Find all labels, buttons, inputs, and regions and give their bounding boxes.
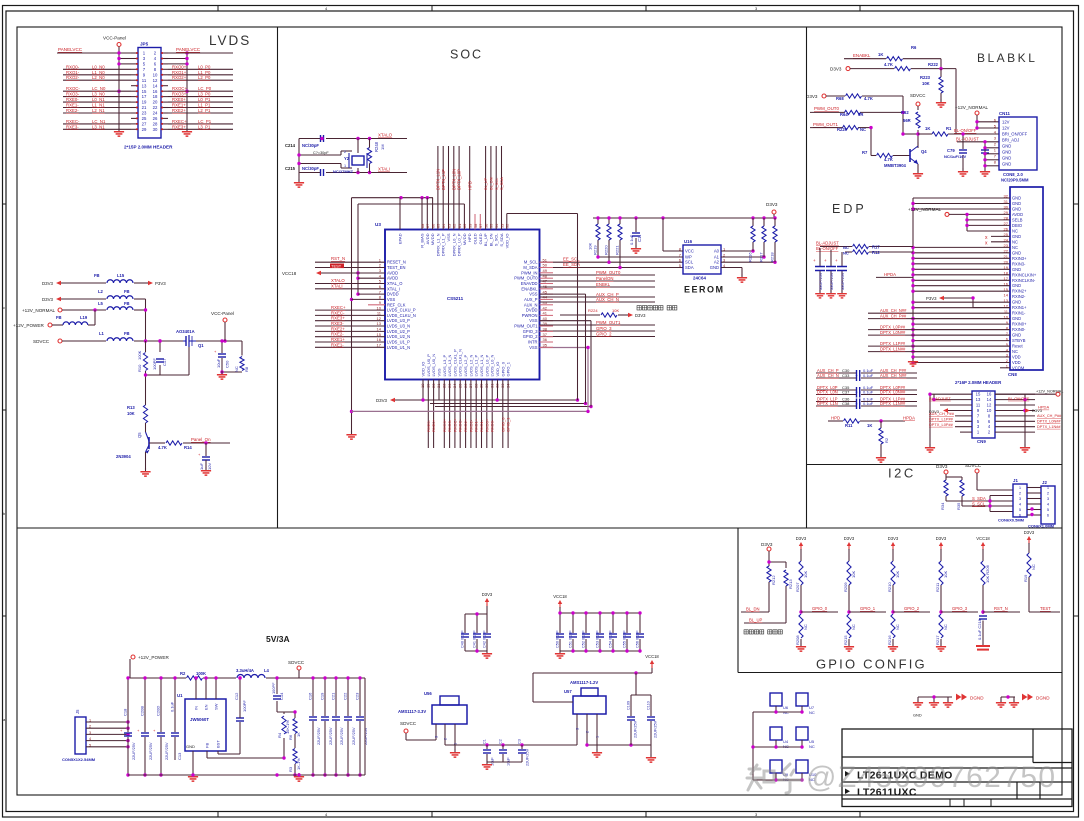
capacitor C51	[569, 630, 578, 648]
svg-text:AVDD: AVDD	[387, 270, 398, 275]
svg-text:14: 14	[153, 83, 158, 88]
svg-text:VSS: VSS	[529, 318, 537, 323]
svg-text:PANELVCC: PANELVCC	[176, 47, 201, 52]
cluster2 rails	[560, 613, 640, 651]
svg-text:100PF: 100PF	[152, 358, 157, 370]
resistor R13b	[879, 428, 889, 444]
wire u1 bst	[218, 722, 240, 754]
ground SOC left gnd	[346, 431, 356, 440]
svg-text:10K-1%: 10K-1%	[285, 720, 290, 734]
inductor L2 FB	[98, 289, 133, 299]
svg-text:R6: R6	[911, 45, 917, 50]
svg-text:LVDS_L3_N: LVDS_L3_N	[447, 354, 452, 376]
svg-text:C3: C3	[518, 739, 522, 744]
junction dgnd1	[932, 695, 935, 698]
svg-text:NC: NC	[895, 624, 900, 630]
svg-text:DPTX_L0P: DPTX_L0P	[457, 169, 462, 190]
svg-text:FB: FB	[124, 301, 130, 306]
junction r10	[144, 339, 162, 376]
svg-text:GPIO_0: GPIO_0	[500, 361, 505, 376]
svg-text:63: 63	[446, 224, 451, 228]
junction xtal	[297, 137, 371, 174]
resistor R229	[837, 126, 866, 133]
ground rst special	[982, 643, 984, 645]
cl2 dots	[558, 611, 641, 652]
wire JP5 right stubs	[168, 59, 187, 64]
capacitor C21	[331, 692, 345, 745]
svg-text:LVDS_CLKL_P: LVDS_CLKL_P	[452, 349, 457, 377]
wire q4 col	[917, 142, 919, 146]
svg-text:VCC18: VCC18	[553, 594, 567, 599]
wire sdvcc i2c wire	[977, 473, 1013, 490]
ground Q5 gnd	[140, 468, 150, 477]
svg-text:1: 1	[596, 736, 600, 738]
CN11 pin names	[994, 118, 1028, 167]
junction g1	[767, 560, 770, 563]
svg-text:RXO0+: RXO0+	[484, 418, 489, 432]
resistor R216	[748, 226, 756, 262]
svg-text:FB: FB	[124, 331, 130, 336]
wire dgnd wire 1	[918, 697, 952, 702]
svg-text:R216: R216	[887, 635, 892, 645]
wire LVDS row RXO3+	[168, 96, 233, 98]
svg-text:NC: NC	[843, 251, 849, 256]
svg-text:40: 40	[543, 316, 548, 321]
svg-text:D3V3: D3V3	[936, 536, 947, 541]
wire bl row4	[810, 111, 903, 113]
svg-text:R229: R229	[837, 127, 848, 132]
J5 wires	[86, 719, 128, 748]
DGND arrow 1	[956, 694, 967, 701]
wire JP5 left stubs	[119, 59, 131, 64]
svg-text:10V: 10V	[207, 463, 212, 470]
svg-text:NC/30pF: NC/30pF	[302, 166, 319, 171]
wire enabkl wire	[844, 59, 941, 69]
ground EDP bus gnd	[908, 358, 918, 367]
svg-text:RXO2-: RXO2-	[66, 75, 80, 80]
capacitor C38	[857, 403, 860, 409]
svg-text:TEST: TEST	[1040, 606, 1051, 611]
wire r10 leads	[146, 341, 161, 405]
svg-text:MVDD: MVDD	[430, 233, 435, 245]
resistor R208	[795, 614, 808, 645]
svg-text:R211: R211	[935, 582, 940, 592]
svg-text:BL-ON/OFF: BL-ON/OFF	[1008, 396, 1030, 401]
capacitor C50	[556, 630, 565, 648]
svg-text:22UF/25V: 22UF/25V	[526, 748, 530, 766]
svg-text:Panel_On: Panel_On	[191, 437, 211, 442]
svg-text:L19: L19	[80, 315, 88, 320]
svg-text:L2_N0: L2_N0	[92, 75, 105, 80]
svg-text:L15: L15	[117, 273, 125, 278]
svg-text:R62: R62	[901, 110, 909, 115]
svg-text:VCC18: VCC18	[282, 271, 297, 276]
svg-text:100K: 100K	[137, 350, 142, 360]
svg-text:JP5: JP5	[140, 42, 149, 47]
svg-text:VSS: VSS	[437, 368, 442, 376]
svg-text:22UF/25V: 22UF/25V	[164, 742, 169, 760]
svg-text:C42 0.1uF: C42 0.1uF	[483, 630, 487, 648]
svg-text:R8: R8	[244, 366, 249, 372]
svg-text:EEROM: EEROM	[684, 285, 725, 295]
wire LVDS row RXE1-	[63, 107, 131, 109]
svg-text:AVDD: AVDD	[387, 276, 398, 281]
svg-text:RXOC-: RXOC-	[458, 418, 463, 432]
svg-text:1: 1	[344, 164, 346, 168]
wire C22 v	[347, 678, 349, 775]
junction c12	[238, 676, 241, 679]
svg-text:RXE1+: RXE1+	[172, 103, 186, 108]
svg-text:GPIO_3: GPIO_3	[952, 606, 968, 611]
svg-text:R219: R219	[593, 245, 598, 255]
svg-text:0R: 0R	[858, 112, 863, 117]
svg-text:L2: L2	[98, 289, 104, 294]
divider GPIO bottom	[738, 672, 1062, 674]
svg-text:GND: GND	[913, 713, 922, 718]
wire test v	[1028, 543, 1030, 612]
svg-text:2: 2	[444, 738, 448, 740]
junction hpd	[879, 419, 882, 422]
ground LVDS right	[182, 128, 192, 137]
power D3V3 GPIO_0	[796, 536, 807, 550]
wire C20B v	[144, 678, 146, 775]
svg-text:RXE0-: RXE0-	[426, 420, 431, 432]
svg-text:33UF/25V: 33UF/25V	[840, 272, 845, 290]
svg-text:MVDD: MVDD	[462, 233, 467, 245]
svg-text:D3V3: D3V3	[830, 67, 842, 72]
svg-text:10K: 10K	[943, 571, 948, 578]
svg-text:C22: C22	[343, 692, 348, 700]
svg-text:4: 4	[89, 737, 91, 741]
wire LVDS row RXE2+	[168, 112, 233, 114]
capacitor C18	[120, 708, 136, 760]
svg-text:NC/30pF: NC/30pF	[302, 143, 319, 148]
svg-text:GPIO_0: GPIO_0	[812, 606, 828, 611]
svg-text:EN: EN	[204, 704, 209, 710]
DGND arrow 2	[1022, 694, 1033, 701]
svg-text:DPTX_L1N: DPTX_L1N	[817, 401, 838, 406]
svg-text:R213: R213	[788, 579, 793, 589]
svg-text:AUX_CH_N: AUX_CH_N	[817, 373, 839, 378]
svg-text:C50: C50	[225, 360, 230, 368]
svg-text:+: +	[824, 258, 827, 263]
svg-text:1K: 1K	[878, 52, 883, 57]
svg-text:RXO3-: RXO3-	[447, 419, 452, 432]
wire edp 28-26	[967, 214, 1010, 231]
svg-text:15: 15	[976, 392, 981, 397]
resistor R211	[935, 561, 948, 592]
U3 right signal wires	[540, 275, 656, 337]
resistor R34	[940, 480, 948, 510]
svg-text:L1_P1: L1_P1	[198, 103, 211, 108]
svg-text:RXIN2+: RXIN2+	[1012, 289, 1027, 294]
svg-text:RXEC-: RXEC-	[66, 119, 80, 124]
svg-text:GPIO_2: GPIO_2	[523, 334, 539, 339]
power SDVCC filt	[33, 339, 62, 344]
wire y2 conn	[357, 139, 359, 173]
svg-text:AUX_CH_P##: AUX_CH_P##	[880, 314, 907, 319]
svg-text:LVDS_L2_N: LVDS_L2_N	[468, 354, 473, 376]
svg-text:C55 0.1uF: C55 0.1uF	[623, 630, 627, 648]
svg-text:LVDS: LVDS	[209, 33, 251, 48]
power D3V3 bl3	[806, 94, 826, 99]
wire LVDS row RXO3-	[63, 96, 131, 98]
capacitor C52	[582, 630, 591, 648]
svg-text:AUX_P: AUX_P	[524, 297, 538, 302]
wire LVDS row RXO0+	[168, 68, 233, 70]
svg-text:REF_CLK: REF_CLK	[387, 302, 406, 307]
U3 bottom labels	[426, 417, 511, 432]
junction bl2	[939, 67, 942, 70]
svg-text:VCC18: VCC18	[976, 536, 990, 541]
svg-text:2: 2	[586, 731, 590, 733]
svg-text:NC: NC	[803, 624, 808, 630]
wire LVDS row RXO0-	[63, 68, 131, 70]
svg-text:INTR: INTR	[528, 340, 538, 345]
wire c79 stub	[963, 134, 985, 170]
svg-text:53: 53	[499, 224, 504, 228]
svg-text:HPDA: HPDA	[903, 416, 915, 421]
wire g1 bot	[769, 582, 786, 623]
wire pullup lead 1	[608, 218, 610, 262]
svg-text:OLED: OLED	[473, 233, 478, 244]
svg-text:VDD_IO: VDD_IO	[495, 362, 500, 377]
svg-text:LVDS_U3_P: LVDS_U3_P	[387, 318, 410, 323]
junction JP5 left	[117, 51, 120, 93]
svg-text:NC: NC	[234, 366, 239, 372]
wire rst out	[983, 611, 1020, 613]
wire q5 base row	[149, 442, 230, 444]
svg-text:DPTX_L0N##: DPTX_L0N##	[880, 390, 906, 395]
title block	[842, 729, 1072, 807]
wire pullup lead 0	[597, 218, 599, 257]
connector JP5	[138, 48, 161, 139]
wire EE_SDA wire	[540, 267, 684, 269]
svg-text:D3V3: D3V3	[635, 313, 646, 318]
svg-text:Q5: Q5	[137, 432, 142, 438]
svg-text:ENABKL: ENABKL	[853, 53, 871, 58]
ground dgnd2 1014	[1009, 699, 1019, 708]
svg-text:CON6X0.5MM: CON6X0.5MM	[998, 518, 1025, 523]
crystal Y2	[333, 150, 367, 174]
resistor R12	[843, 250, 880, 256]
svg-text:GND: GND	[1002, 161, 1011, 166]
svg-text:PWM_OUT0: PWM_OUT0	[596, 270, 621, 275]
svg-text:PWM_IN: PWM_IN	[521, 270, 537, 275]
watermark	[747, 761, 1057, 794]
resistor R210	[887, 561, 900, 592]
svg-text:12: 12	[153, 78, 158, 83]
svg-text:L1_P0: L1_P0	[198, 70, 211, 75]
svg-text:LC_N1: LC_N1	[92, 119, 106, 124]
junction panel on	[204, 441, 207, 444]
power D3V3 bl1	[830, 67, 850, 72]
wire r17 row	[820, 246, 913, 248]
EDP signal wires	[868, 313, 1010, 351]
svg-text:EDP: EDP	[832, 202, 867, 216]
testpoint U6	[770, 693, 782, 706]
svg-text:DVDD: DVDD	[387, 292, 399, 297]
testpoint U4	[770, 727, 782, 740]
ground C80 gnd	[980, 168, 990, 177]
svg-text:RXEC+: RXEC+	[331, 305, 346, 310]
resistor R8 NC	[234, 357, 249, 373]
svg-text:RXO0-: RXO0-	[490, 419, 495, 432]
resistor R10	[137, 350, 148, 372]
wire q4 emit	[917, 164, 919, 172]
svg-text:NC: NC	[1012, 245, 1018, 250]
svg-text:U1: U1	[177, 693, 183, 698]
wire r12 row	[845, 251, 913, 253]
svg-text:GND: GND	[1012, 300, 1021, 305]
svg-text:AO3401A: AO3401A	[176, 329, 195, 334]
resistor R14	[158, 441, 192, 450]
junction rst	[981, 610, 984, 613]
resistor R223	[920, 75, 943, 93]
svg-text:13: 13	[377, 321, 382, 326]
svg-text:0.1uF: 0.1uF	[170, 701, 175, 712]
wire cap row DPTX_L0P	[816, 389, 917, 391]
svg-text:58: 58	[473, 224, 478, 228]
svg-text:L1_N1: L1_N1	[92, 103, 105, 108]
resistor R68	[836, 94, 873, 101]
svg-text:15: 15	[142, 89, 147, 94]
label chinese1	[637, 306, 641, 310]
wire LVDS row RXEC+	[168, 123, 233, 125]
svg-text:C11: C11	[637, 234, 642, 242]
svg-text:HPD: HPD	[467, 233, 472, 242]
wire LVDS row RXE0+	[168, 101, 233, 103]
svg-text:C110: C110	[647, 701, 651, 710]
ground pwr gnd1	[188, 773, 198, 782]
divider I2C top	[807, 464, 1063, 466]
svg-text:NC/1uF/16V: NC/1uF/16V	[944, 154, 967, 159]
svg-text:BRI_ON/OFF: BRI_ON/OFF	[1002, 131, 1028, 136]
testpoint U10	[796, 760, 808, 773]
regulator U1	[185, 699, 226, 751]
svg-text:59: 59	[468, 224, 473, 228]
wire q5 emitter	[145, 452, 147, 470]
svg-text:LVDS_L3_P: LVDS_L3_P	[442, 354, 447, 376]
svg-text:10K: 10K	[127, 411, 135, 416]
wire xtal bot	[299, 172, 407, 174]
svg-text:5V/3A: 5V/3A	[266, 634, 290, 644]
U16 pin names	[679, 247, 726, 271]
svg-text:22UF/25V: 22UF/25V	[351, 727, 356, 745]
svg-text:FB: FB	[124, 289, 130, 294]
svg-text:4.7K: 4.7K	[884, 157, 893, 162]
svg-text:RXE3-: RXE3-	[331, 321, 344, 326]
svg-text:0.1uF C218: 0.1uF C218	[977, 618, 982, 640]
svg-text:DPRX_L0_P: DPRX_L0_P	[457, 233, 462, 256]
svg-text:VCC-Panel: VCC-Panel	[211, 311, 234, 316]
ground dgnd2 1001	[996, 699, 1006, 708]
capacitor C214	[285, 135, 324, 148]
svg-text:C40 0.1uF: C40 0.1uF	[461, 630, 465, 648]
wire LVDS row RXE1+	[168, 107, 233, 109]
svg-text:XTALI: XTALI	[331, 284, 343, 289]
CN9 left wires	[930, 394, 972, 446]
cn11 gnd wires	[985, 148, 999, 166]
power VCC18 u57	[645, 654, 659, 668]
resistor R64	[840, 110, 863, 117]
ground edp cap gnd 842	[837, 290, 847, 299]
junction eerom rail	[596, 216, 776, 219]
svg-text:22UF/25V: 22UF/25V	[339, 727, 344, 745]
svg-text:R2: R2	[180, 671, 186, 676]
svg-text:R217: R217	[935, 635, 940, 645]
ground xtal gnd	[294, 179, 304, 188]
svg-text:AUX_CH_P##: AUX_CH_P##	[929, 411, 955, 416]
wire ldo cap C3	[521, 745, 523, 762]
svg-text:U16: U16	[684, 239, 693, 244]
svg-text:1K: 1K	[925, 126, 930, 131]
connector CN8	[1010, 187, 1043, 370]
svg-text:1: 1	[89, 719, 91, 723]
power VCC18 cl2	[553, 594, 567, 608]
svg-text:L3_P0: L3_P0	[198, 92, 211, 97]
wire u1 fb	[206, 751, 208, 758]
svg-text:NC/27MHZ: NC/27MHZ	[333, 169, 354, 174]
svg-text:R209: R209	[843, 582, 848, 592]
wire C16 v	[312, 678, 314, 775]
wire c12 up	[239, 678, 241, 718]
wire U16 gnd	[721, 268, 742, 277]
junction u56 out	[485, 743, 523, 746]
top right labels	[483, 177, 504, 190]
svg-text:BL-ADJUST: BL-ADJUST	[956, 137, 979, 142]
svg-text:P3V3: P3V3	[926, 296, 937, 301]
svg-text:RXE0+: RXE0+	[431, 419, 436, 432]
svg-text:CON8_2.0: CON8_2.0	[1003, 172, 1023, 177]
svg-text:BL-ADJUST: BL-ADJUST	[929, 396, 951, 401]
svg-text:LVDS_U1_N: LVDS_U1_N	[387, 345, 410, 350]
wire r13 bottom	[145, 423, 147, 432]
connector J1	[1013, 484, 1027, 517]
resistor R248	[367, 141, 385, 163]
ground pwr gnd2	[294, 773, 304, 782]
svg-text:SELB: SELB	[1012, 217, 1023, 222]
svg-text:FB: FB	[205, 743, 210, 748]
svg-text:D3V3: D3V3	[936, 464, 948, 469]
capacitor C40	[461, 630, 470, 648]
svg-text:DPTX_L0N##: DPTX_L0N##	[880, 330, 906, 335]
junction tp dots	[751, 710, 803, 781]
svg-text:J1: J1	[1013, 478, 1018, 483]
wire LVDS row RXE3+	[168, 128, 233, 130]
svg-text:PWM_OUT1: PWM_OUT1	[813, 122, 838, 127]
wire u57 out	[587, 744, 651, 746]
capacitor C36	[857, 399, 860, 405]
svg-text:HPD: HPD	[467, 181, 472, 190]
divider LVDS/SOC	[277, 27, 279, 528]
capacitor C50	[214, 349, 230, 368]
wire hpda wire	[876, 276, 913, 278]
svg-text:LVDS_CLKL_N: LVDS_CLKL_N	[458, 349, 463, 377]
svg-text:NC: NC	[1012, 349, 1018, 354]
connector CN9	[972, 391, 995, 438]
capacitor C12	[234, 692, 247, 721]
wire u56 in	[406, 733, 436, 740]
junction cn11 gnds	[983, 146, 986, 167]
svg-text:C13: C13	[177, 752, 182, 760]
svg-text:4.7K: 4.7K	[864, 96, 873, 101]
svg-text:15: 15	[377, 332, 382, 337]
wire r224 wire	[560, 314, 628, 316]
wire PANELVCC right	[168, 52, 233, 54]
svg-text:VCOM: VCOM	[1012, 366, 1025, 371]
svg-text:GND: GND	[1012, 316, 1021, 321]
